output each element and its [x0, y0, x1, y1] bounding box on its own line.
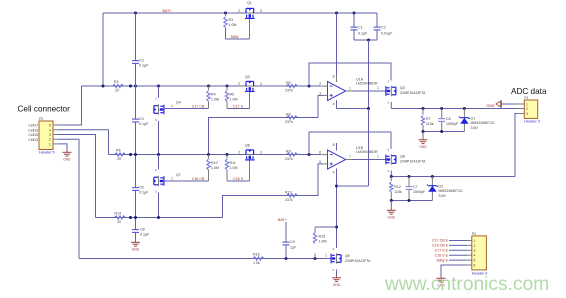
svg-text:115k: 115k [426, 122, 434, 126]
junction U1A V+ riser [335, 12, 338, 15]
refdes P2 [39, 117, 43, 121]
pin 3 label Q6 [260, 150, 262, 154]
net Cell16 [28, 128, 38, 132]
svg-text:4: 4 [49, 128, 51, 132]
svg-text:4: 4 [474, 254, 476, 258]
svg-text:20: 20 [117, 157, 121, 161]
svg-text:ZXMP10A13FTA: ZXMP10A13FTA [345, 259, 371, 263]
svg-text:Q1: Q1 [247, 1, 252, 5]
pin 6 P3 [467, 264, 476, 268]
svg-text:1: 1 [171, 176, 173, 180]
junction R15 bottom [314, 257, 317, 260]
pin 1 label Q8 gate [377, 155, 379, 159]
transistor Q1 [245, 8, 256, 18]
svg-text:C17 CB E: C17 CB E [432, 239, 449, 243]
svg-text:1000pF: 1000pF [446, 122, 459, 126]
net label C16 S [233, 177, 244, 181]
svg-text:1: 1 [325, 254, 327, 258]
wire P3 pin 1 [449, 240, 467, 242]
svg-text:C6: C6 [446, 117, 451, 121]
svg-text:Q2: Q2 [245, 75, 250, 79]
transistor Q6 [245, 150, 256, 160]
capacitor column vertical C3 [135, 13, 137, 86]
svg-text:C17 CB: C17 CB [192, 104, 205, 108]
net label C16 S E [435, 253, 449, 257]
junction C9 bottom [285, 257, 288, 260]
power port BAT+ top [162, 9, 172, 13]
svg-text:GND: GND [132, 247, 140, 251]
capacitor C2 [374, 27, 381, 30]
junction rail2 R11 [226, 153, 229, 156]
pin 2 P1 [517, 107, 528, 111]
net label C17 CB E [432, 239, 449, 243]
svg-text:1: 1 [377, 86, 379, 90]
resistor R13 [287, 194, 298, 197]
resistor R5 vertical [226, 86, 228, 90]
wire P2 pin1 to ground [58, 144, 67, 150]
junction Q8 output [390, 175, 393, 178]
svg-text:GND: GND [333, 283, 341, 287]
svg-text:237k: 237k [285, 120, 293, 124]
svg-text:0.1µF: 0.1µF [139, 122, 149, 126]
junction bottom rail C6 [440, 130, 443, 133]
wire U1A V- pin to riser [336, 101, 338, 109]
wire rail1 cell17 [82, 85, 322, 87]
refdes P1 [524, 96, 528, 100]
svg-text:C4: C4 [139, 117, 144, 121]
junction rail1 Q4 drain [157, 85, 160, 88]
wire Q3 drain down to output rail [390, 102, 392, 109]
svg-text:R15: R15 [319, 234, 326, 238]
svg-text:C2: C2 [381, 25, 386, 29]
junction C7 top [408, 175, 411, 178]
svg-text:115k: 115k [394, 190, 402, 194]
capacitor C1 [351, 27, 358, 30]
junction C1C2 bottom [367, 39, 370, 42]
resistor R8 [287, 116, 298, 119]
junction bottom rail C7 [408, 199, 411, 202]
svg-text:C17 S E: C17 S E [435, 249, 449, 253]
svg-text:MMSZ4685T1G: MMSZ4685T1G [439, 189, 463, 193]
svg-text:3: 3 [260, 9, 262, 13]
ground P3 [437, 276, 446, 287]
svg-text:5: 5 [474, 259, 476, 263]
capacitor C4 column [135, 86, 137, 155]
svg-text:5: 5 [49, 124, 51, 128]
svg-text:3: 3 [49, 133, 51, 137]
pin 1 label Q9 gate [325, 254, 327, 258]
svg-text:6: 6 [319, 151, 321, 155]
svg-text:7: 7 [349, 155, 351, 159]
pin 1 label Q4 [171, 104, 173, 108]
svg-text:www.cntronics.com: www.cntronics.com [384, 274, 549, 295]
capacitor C5 column [135, 155, 137, 218]
svg-text:2: 2 [474, 244, 476, 248]
svg-text:2: 2 [49, 138, 51, 142]
svg-text:R11: R11 [230, 161, 236, 165]
svg-text:Cell17: Cell17 [28, 124, 38, 128]
net label 3dBy E [436, 258, 448, 262]
svg-text:Q8: Q8 [400, 155, 405, 159]
svg-text:6: 6 [474, 264, 476, 268]
wire output network bottom rail [423, 131, 464, 133]
junction C1 top [353, 12, 356, 15]
net Cell15 [28, 133, 38, 137]
wire U1A V+ riser [336, 13, 338, 75]
wire U1A feedback loop [309, 63, 391, 86]
svg-text:3: 3 [526, 112, 528, 116]
svg-text:8: 8 [333, 143, 335, 147]
svg-text:R14: R14 [115, 212, 122, 216]
resistor R16 [253, 257, 264, 260]
transistor Q4 [158, 86, 160, 98]
wire P1 pin3 to U1B output [515, 114, 517, 177]
wire U1B V+ stub [336, 143, 338, 150]
junction rail2 R10 [207, 153, 210, 156]
wire U1B feedback loop [309, 132, 391, 155]
svg-text:C9: C9 [290, 240, 295, 244]
power port BAT+ bottom [278, 218, 288, 222]
resistor R4 [208, 86, 210, 90]
svg-text:GND: GND [486, 104, 495, 108]
pin 2 label Q1 [238, 9, 240, 13]
resistor R5 237k to U1A pin2 [287, 84, 298, 87]
junction bottom rail R7 [422, 130, 425, 133]
svg-text:C16 S E: C16 S E [435, 253, 449, 257]
resistor R11 [226, 155, 228, 159]
svg-text:Q9: Q9 [345, 254, 350, 258]
ground P2 pin1 [63, 150, 72, 161]
svg-text:P2: P2 [39, 117, 43, 121]
resistor R10 [208, 155, 210, 159]
junction R15 tap [335, 226, 338, 229]
svg-text:2: 2 [238, 9, 240, 13]
net label C17 CB [192, 104, 205, 108]
svg-text:3dBy E: 3dBy E [436, 258, 448, 262]
svg-text:R12: R12 [394, 185, 401, 189]
ground C8 [131, 240, 140, 251]
svg-text:R7: R7 [426, 117, 431, 121]
svg-text:1: 1 [377, 155, 379, 159]
capacitor C7 [408, 177, 410, 201]
wire bottom rail cell13 [79, 258, 331, 260]
transistor Q3 [387, 80, 389, 84]
label Header 6 [472, 272, 488, 276]
svg-text:3: 3 [260, 82, 262, 86]
svg-text:R5: R5 [286, 81, 291, 85]
capacitor C8 and ground [135, 218, 137, 241]
wire Q9 source to ground [336, 270, 338, 276]
svg-text:3.6V: 3.6V [439, 194, 447, 198]
wire rail2 cell16 [109, 154, 322, 156]
svg-text:R4: R4 [211, 92, 216, 96]
pin 1 label Q3 gate [377, 86, 379, 90]
net Cell17 [28, 124, 38, 128]
net label C16 CB [192, 177, 205, 181]
svg-text:GND: GND [63, 157, 71, 161]
svg-text:D1: D1 [471, 116, 476, 120]
svg-text:1: 1 [474, 239, 476, 243]
svg-text:R9: R9 [286, 150, 291, 154]
junction R3 top [224, 12, 227, 15]
transistor Q9 [332, 247, 334, 251]
capacitor C9 [285, 222, 287, 259]
svg-text:Cell connector: Cell connector [18, 105, 71, 114]
svg-text:R6: R6 [116, 149, 121, 153]
svg-text:1: 1 [171, 104, 173, 108]
pin 2 label Q6 [238, 150, 240, 154]
junction rail2 cap column a [129, 153, 132, 156]
capacitor C6 [441, 109, 443, 132]
watermark [384, 274, 549, 295]
net Cell13 [28, 138, 38, 142]
pin 1 label Q7 [171, 176, 173, 180]
svg-text:5: 5 [319, 160, 321, 164]
svg-text:4: 4 [333, 171, 335, 175]
capacitor bank C1 C2 box [353, 13, 355, 40]
svg-text:C16 CB: C16 CB [192, 177, 205, 181]
svg-text:C16 CB E: C16 CB E [432, 244, 449, 248]
pin 3 label Q2 [260, 82, 262, 86]
pin 5 P3 [467, 259, 476, 263]
svg-text:Q7: Q7 [176, 173, 181, 177]
svg-text:1.0M: 1.0M [229, 23, 237, 27]
wire U1B output to Q8 gate [352, 159, 386, 161]
pin 1 P2 [49, 142, 58, 146]
svg-text:C1: C1 [358, 25, 363, 29]
svg-text:C16 S: C16 S [233, 177, 244, 181]
connector P3 [472, 236, 487, 270]
pin 5 P2 [49, 124, 58, 128]
wire U1B network bottom rail [391, 200, 432, 202]
wire R8 to U1A pin3 [282, 95, 323, 117]
refdes P3 [472, 232, 476, 236]
wire P2 pin4 riser to cell16 rail [58, 130, 109, 155]
title ADC data [511, 87, 547, 96]
svg-text:Header 5: Header 5 [39, 150, 55, 154]
svg-text:P3: P3 [472, 232, 476, 236]
svg-text:3: 3 [260, 150, 262, 154]
svg-text:LM2904BIDR: LM2904BIDR [356, 150, 378, 154]
svg-text:R16: R16 [253, 253, 260, 257]
svg-text:2: 2 [319, 82, 321, 86]
svg-text:C7: C7 [413, 185, 418, 189]
svg-text:3: 3 [474, 249, 476, 253]
wire P3 pin 5 [449, 259, 467, 261]
svg-text:1.0M: 1.0M [211, 166, 219, 170]
svg-text:C3: C3 [139, 59, 144, 63]
svg-text:1.0M: 1.0M [319, 239, 327, 243]
pin 2 P3 [467, 244, 476, 248]
wire U1B V- down [336, 169, 338, 249]
title Cell connector [18, 105, 71, 114]
svg-text:C17 S: C17 S [233, 104, 244, 108]
svg-text:1.0M: 1.0M [211, 97, 219, 101]
junction rail2 cap column b [134, 153, 137, 156]
svg-text:237k: 237k [285, 198, 293, 202]
wire V- link to riser [337, 185, 369, 187]
transistor Q7 [158, 155, 160, 170]
resistor R6 [115, 153, 126, 156]
junction rail2 Q7 drain [157, 153, 160, 156]
ground R12 [390, 201, 392, 209]
net label C16 CB E [432, 244, 449, 248]
pin 2 label Q2 [238, 82, 240, 86]
svg-text:ZXMP10A13FTA: ZXMP10A13FTA [400, 91, 426, 95]
pin 3 P2 [49, 133, 58, 137]
resistor R7 [422, 109, 424, 115]
wire U1A output rail [391, 108, 524, 110]
junction V- riser [367, 107, 370, 110]
pin 4 P2 [49, 128, 58, 132]
svg-text:GND: GND [388, 215, 396, 219]
junction D1 top [463, 107, 466, 110]
wire R11 to Q6 gate net C16 S [227, 180, 250, 182]
pin 1 P3 [467, 239, 476, 243]
resistor R9 237k to U1B pin6 [287, 153, 298, 156]
junction C3 top [134, 12, 137, 15]
svg-text:R10: R10 [211, 161, 218, 165]
svg-text:ADC data: ADC data [511, 87, 547, 96]
junction rail3 cap column a [129, 216, 132, 219]
pin 4 P3 [467, 254, 476, 258]
svg-text:0.1µF: 0.1µF [358, 32, 368, 36]
pin 2 P2 [49, 138, 58, 142]
svg-text:0.1µF: 0.1µF [139, 64, 149, 68]
pin 3 P1 [517, 112, 528, 116]
svg-text:Q4: Q4 [176, 101, 181, 105]
junction rail3 Q7 source [157, 216, 160, 219]
pin 1 P1 [517, 103, 528, 107]
wire Q8 drain down to output rail [390, 171, 392, 177]
svg-text:R5: R5 [230, 92, 235, 96]
wire R13 left to rail3 [223, 196, 286, 218]
resistor R15 [314, 254, 316, 259]
wire P2 pin5 riser to cell17 rail [58, 86, 82, 125]
svg-text:ZXMP10A13FTA: ZXMP10A13FTA [400, 159, 426, 163]
op-amp U1A [322, 75, 352, 108]
junction U1A feedback node [308, 85, 311, 88]
junction U1B feedback node [308, 153, 311, 156]
wire P3 pin 3 [449, 249, 467, 251]
wire R5 to Q2 gate net C17 S [227, 108, 250, 110]
junction V- h-link [335, 185, 338, 188]
svg-text:Q6: Q6 [245, 144, 250, 148]
connector P2 [39, 121, 53, 150]
zener diode D1 [463, 109, 465, 132]
wire P3 pin 2 [449, 244, 467, 246]
svg-text:LM2904BIDR: LM2904BIDR [356, 82, 378, 86]
svg-text:Header 3: Header 3 [524, 120, 540, 124]
svg-text:1.0M: 1.0M [230, 166, 238, 170]
wire P3 pin6 to ground [441, 265, 467, 276]
label Header 3 [524, 120, 540, 124]
junction rail1 R4 [207, 85, 210, 88]
junction bottom rail R12 [390, 199, 393, 202]
transistor Q2 [245, 81, 256, 91]
wire left drop from BAT+ rail to cell17 rail [102, 13, 104, 86]
wire P2 pin3 riser to cell15 rail [58, 135, 96, 218]
svg-text:8: 8 [333, 74, 335, 78]
svg-text:1000pF: 1000pF [413, 190, 426, 194]
net label C17 S [233, 104, 244, 108]
label Header 5 [39, 150, 55, 154]
svg-text:BAT+: BAT+ [162, 9, 172, 13]
net label 3dBy [230, 35, 238, 39]
wire R8 left to rail2 [209, 118, 286, 155]
wire Q7 gate net C16 CB [164, 180, 209, 182]
svg-text:Cell13: Cell13 [28, 138, 38, 142]
svg-text:0.1µF: 0.1µF [139, 191, 149, 195]
junction rail3 cap column b [134, 216, 137, 219]
svg-text:P1: P1 [524, 96, 528, 100]
junction D2 top [431, 175, 434, 178]
wire P2 pin2 riser to bottom rail [58, 139, 79, 258]
svg-text:0.1µF: 0.1µF [140, 233, 150, 237]
svg-text:C5: C5 [139, 186, 144, 190]
svg-text:R3: R3 [229, 18, 234, 22]
wire P3 pin 4 [449, 254, 467, 256]
transistor Q8 [387, 148, 389, 152]
pin 3 P3 [467, 249, 476, 253]
junction R7 top [422, 107, 425, 110]
resistor R3 [225, 13, 227, 16]
wire GND to P1 pin1 [502, 103, 524, 105]
wire Q4 gate net C17 CB [164, 108, 209, 110]
svg-text:MMSZ4685T1G: MMSZ4685T1G [471, 121, 495, 125]
junction rail1 cap column b [134, 85, 137, 88]
svg-text:1µF: 1µF [290, 246, 297, 250]
svg-text:3: 3 [319, 91, 321, 95]
svg-text:0.01µF: 0.01µF [381, 32, 393, 36]
resistor R14 [115, 216, 126, 219]
junction rail1 cap column a [129, 85, 132, 88]
svg-text:R2: R2 [114, 80, 119, 84]
svg-text:3.6V: 3.6V [471, 126, 479, 130]
svg-text:Cell16: Cell16 [28, 128, 38, 132]
svg-text:1: 1 [349, 86, 351, 90]
wire U1B output rail [391, 176, 515, 178]
ground R7 [422, 132, 424, 138]
svg-text:20: 20 [117, 220, 121, 224]
svg-text:2: 2 [238, 150, 240, 154]
svg-text:2: 2 [238, 82, 240, 86]
svg-text:4: 4 [333, 102, 335, 106]
svg-text:237k: 237k [285, 89, 293, 93]
resistor R2 [113, 84, 124, 87]
wire U1A output to Q3 gate [352, 90, 386, 92]
wire R3 to Q1 gate [226, 38, 250, 40]
ground Q9 [332, 276, 341, 287]
junction C6 top [440, 107, 443, 110]
zener diode D2 [431, 177, 433, 201]
svg-text:BAT+: BAT+ [278, 218, 288, 222]
op-amp U1B [322, 143, 352, 176]
svg-text:1: 1 [49, 142, 51, 146]
connector P1 [524, 100, 537, 118]
svg-text:C8: C8 [140, 228, 145, 232]
wire BAT+ top rail [103, 12, 377, 14]
pin 3 label Q1 [260, 9, 262, 13]
power port GND at ADC [486, 104, 495, 108]
svg-text:1.0k: 1.0k [253, 261, 260, 265]
svg-text:R13: R13 [285, 191, 292, 195]
wire R15 top to V- column [315, 226, 337, 228]
svg-text:237k: 237k [285, 157, 293, 161]
svg-text:3dBy: 3dBy [230, 35, 238, 39]
junction rail1 left riser [102, 85, 105, 88]
wire cap bank down to op-amp V- rail [368, 40, 370, 109]
